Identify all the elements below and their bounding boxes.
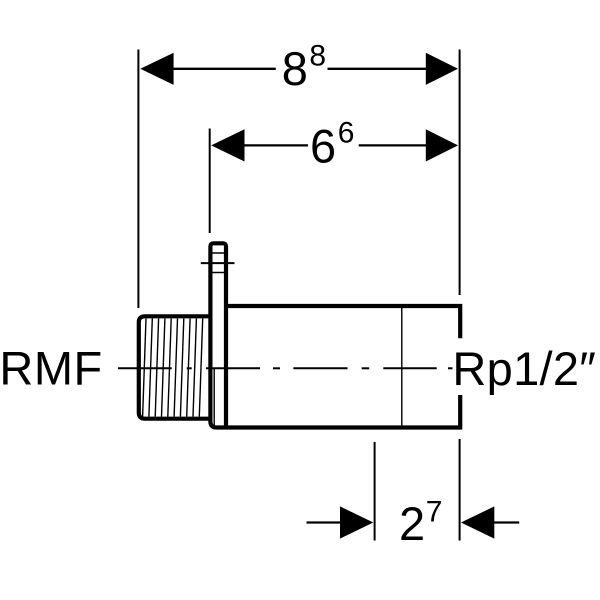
arrow pointing right at left ext (340, 506, 373, 538)
body top and right upper edge (226, 306, 460, 338)
arrow right dim 6 (426, 129, 458, 161)
body inner vertical line (401, 306, 403, 426)
svg-text:2: 2 (399, 497, 425, 550)
svg-text:RMF: RMF (0, 342, 103, 395)
tab thin line 2 (212, 272, 225, 274)
svg-text:6: 6 (310, 120, 336, 173)
arrow right dim 8 (426, 53, 458, 85)
thread outline (139, 316, 211, 418)
flange tab outline (210, 243, 226, 427)
extension line left of dim 2 (374, 442, 376, 541)
extension line right shared (459, 50, 461, 296)
extension line left of dim 6 (209, 129, 211, 234)
dimension line 2 with outside arrows (307, 521, 342, 523)
extension line left of dim 8 (137, 50, 139, 309)
thread hatch lines (143, 319, 203, 417)
arrow pointing left at right ext (461, 506, 494, 538)
dimension line 6 (244, 144, 308, 146)
dimension line 8 (174, 68, 276, 70)
tab tick (201, 262, 235, 264)
tab inner thin vertical (213, 368, 215, 426)
tab thin line 1 (212, 252, 225, 254)
centerline (118, 367, 453, 369)
body right lower + bottom (210, 395, 460, 428)
extension line right of dim 2 (459, 439, 461, 541)
arrow left dim 8 (140, 53, 173, 85)
svg-text:8: 8 (309, 39, 326, 72)
arrow left dim 6 (211, 129, 244, 161)
svg-text:7: 7 (426, 496, 443, 529)
svg-text:Rp1/2″: Rp1/2″ (452, 342, 596, 395)
svg-text:6: 6 (338, 117, 355, 150)
svg-text:8: 8 (282, 42, 308, 95)
